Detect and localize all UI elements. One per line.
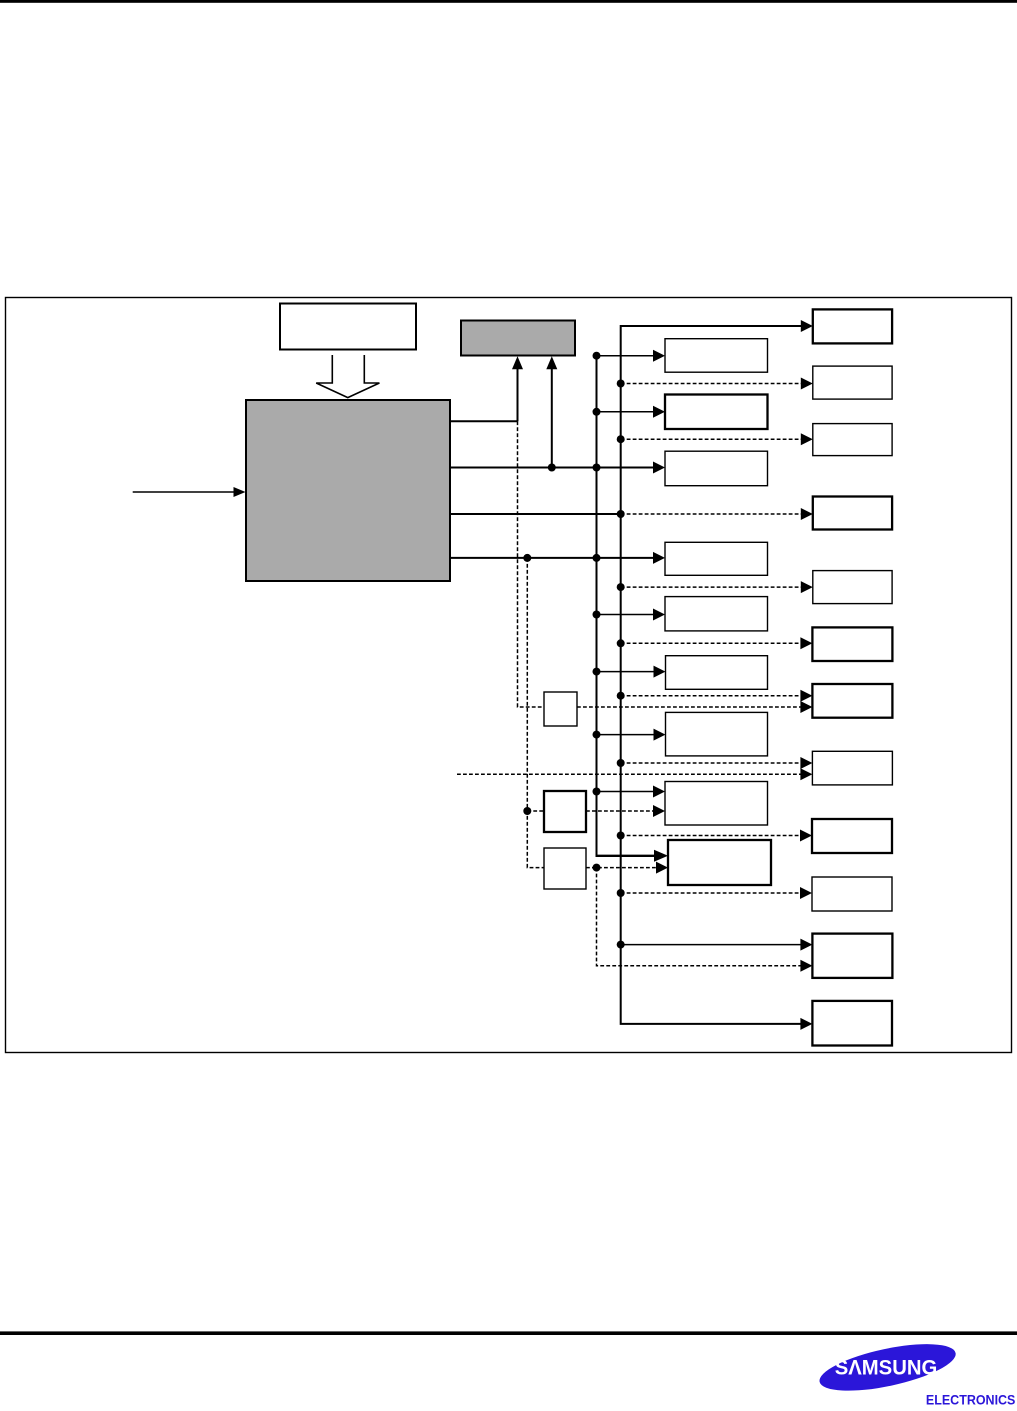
svg-text:ELECTRONICS: ELECTRONICS — [926, 1392, 1016, 1406]
svg-text:SΛMSUNG: SΛMSUNG — [835, 1355, 938, 1379]
